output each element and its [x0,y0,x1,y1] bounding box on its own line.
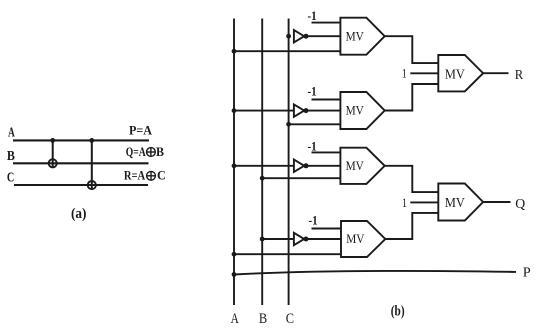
wire input line C vertical (b) [288,19,290,306]
junction dot B to MV3 [260,176,265,181]
junction dot A to MV1 [232,49,237,54]
wire MV3 output to MV6 top input [385,166,439,192]
svg-text:R=A: R=A [124,167,146,182]
svg-text:MV: MV [346,232,364,246]
svg-text:MV: MV [346,29,364,43]
svg-text:1: 1 [402,66,407,81]
wire N3 output to MV3 [306,165,340,167]
wire A (a) [13,139,149,141]
svg-text:-1: -1 [308,8,317,23]
svg-text:1: 1 [402,195,407,210]
wire constant 1 stub MV5 [410,72,438,74]
XOR target CNOT2 on C [88,181,96,189]
majority gate MV2 [340,92,384,129]
wire B to inverter N4 [262,238,294,240]
wire P output [234,271,516,275]
wire MV1 output to MV5 top input [385,36,439,63]
wire input line A vertical (b) [233,19,235,306]
wire MV6 output Q [483,201,510,203]
inverter N2 [294,104,309,116]
svg-text:Q: Q [515,197,525,212]
majority gate MV4 [341,221,385,257]
majority gate MV1 [340,18,384,55]
wire A to inverter N3 [234,165,294,167]
svg-text:B: B [156,144,164,159]
control dot CNOT1 on A [50,138,55,143]
wire CNOT1 vertical [52,140,54,167]
wire A to inverter N2 [234,110,294,112]
svg-text:C: C [157,167,166,182]
wire N4 output to MV4 [306,238,341,240]
svg-text:B: B [7,148,15,163]
net label Q=A xor B [126,144,165,159]
junction dot A to inverter N2 [232,108,237,113]
wire B to MV3 [262,177,340,179]
junction dot A to P wire [232,272,237,277]
svg-text:A: A [231,311,239,327]
svg-text:Q=A: Q=A [126,144,146,159]
wire input line B vertical (b) [261,19,263,306]
wire N1 output to MV1 [306,35,340,37]
inverter N4 [294,233,309,245]
svg-text:MV: MV [346,159,364,173]
wire constant -1 stub MV3 [312,151,341,153]
wire MV2 output to MV5 bottom input [385,84,439,111]
wire A to MV1 [234,50,340,52]
majority gate MV6 [438,184,483,221]
net label R=A xor C [124,167,166,182]
svg-text:(b): (b) [391,303,405,319]
svg-text:C: C [286,311,294,327]
wire constant -1 stub MV2 [312,99,341,101]
wire MV4 output to MV6 bottom input [385,213,438,239]
junction dot A to MV4 [232,252,237,257]
svg-text:B: B [259,311,267,327]
wire A to MV4 [234,253,341,255]
wire constant -1 stub MV4 [312,228,342,230]
wire constant 1 stub MV6 [410,201,438,203]
majority gate MV5 [438,55,483,91]
svg-text:MV: MV [346,104,364,118]
junction dot B to inverter N4 [260,237,265,242]
svg-text:MV: MV [445,196,465,211]
control dot CNOT2 on A [89,138,94,143]
svg-text:(a): (a) [71,206,86,222]
majority gate MV3 [340,148,384,184]
junction dot C to MV2 [286,122,291,127]
svg-text:MV: MV [445,67,465,82]
wire N2 output to MV2 [306,110,340,112]
wire C (a) [14,184,148,186]
inverter N3 [294,160,309,172]
svg-text:P=A: P=A [129,123,153,138]
wire CNOT2 vertical [91,140,93,189]
svg-text:A: A [8,124,15,139]
wire MV5 output R [483,72,508,74]
svg-text:-1: -1 [309,213,318,228]
inverter N1 [294,30,309,42]
svg-text:-1: -1 [308,84,317,99]
svg-text:P: P [523,266,531,281]
XOR target CNOT1 on B [49,159,57,167]
svg-text:R: R [515,68,524,83]
svg-text:C: C [7,169,14,184]
svg-text:-1: -1 [308,139,317,154]
wire C to MV2 [289,123,341,125]
wire constant -1 stub MV1 [312,22,341,24]
junction dot A to inverter N3 [232,163,237,168]
wire B (a) [13,162,149,164]
junction dot C to inverter N1 [286,34,291,39]
